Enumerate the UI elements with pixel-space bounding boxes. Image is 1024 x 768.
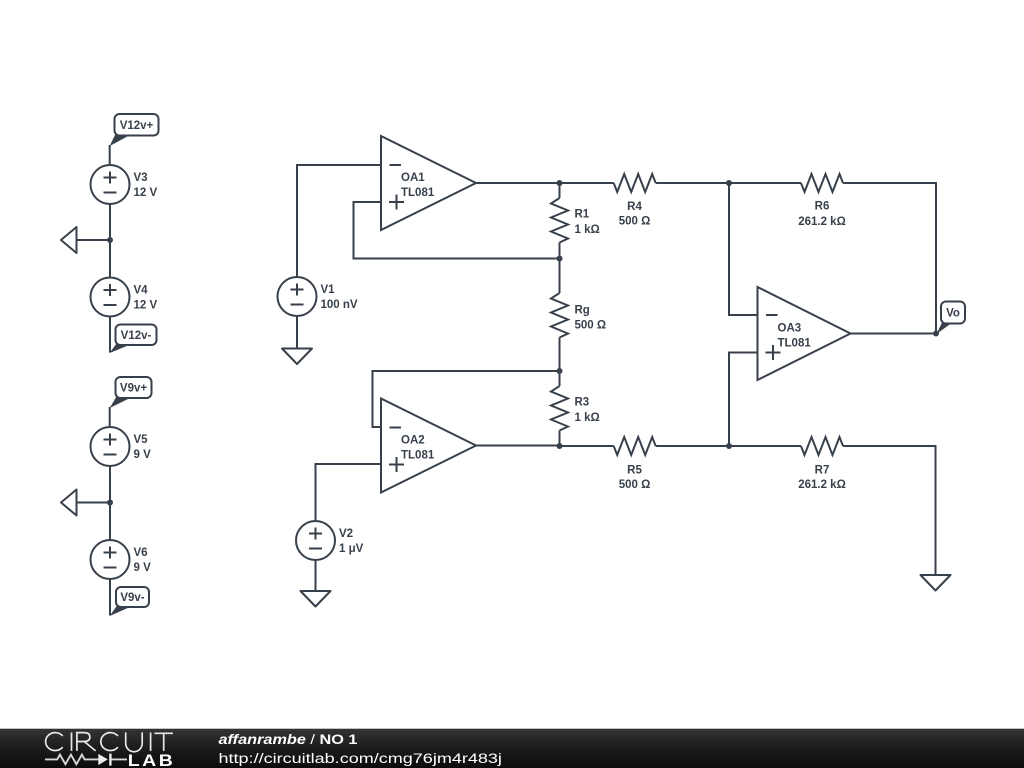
label V1 value [321,284,358,311]
wire bottom rail [560,446,936,575]
wire OA1 plus input loop [354,202,560,259]
op-amp OA1 (TL081) [381,136,476,230]
junction R5/R7 (OA3 plus tap) [726,443,732,449]
svg-text:R3: R3 [575,397,590,409]
wire OA3 plus input [729,353,758,447]
junction V5/V6 midpoint [107,500,113,506]
common net flag (left arrow) [61,227,77,253]
ground (output, bottom right) [921,575,951,591]
svg-text:9 V: 9 V [134,562,152,574]
svg-text:1 μV: 1 μV [339,543,364,555]
junction R3 bottom [557,443,563,449]
svg-text:12 V: 12 V [134,299,158,311]
wire V1 to ground [296,316,298,349]
net flag V12v- [110,325,157,354]
resistor R3 [551,386,568,431]
junction V3/V4 midpoint [107,237,113,243]
label R1 value [575,209,600,237]
svg-text:http://circuitlab.com/cmg76jm4: http://circuitlab.com/cmg76jm4r483j [219,751,502,767]
wire OA2 output to node [476,445,560,447]
wire top rail [560,183,937,334]
footer bar [0,729,1024,768]
resistor R5 [614,437,656,455]
svg-text:V1: V1 [321,284,336,296]
wire V1 to OA1 minus input [297,165,381,277]
wire flag to V5 [109,407,111,427]
svg-text:TL081: TL081 [778,338,812,350]
svg-text:V2: V2 [339,528,353,540]
logo resistor+diode glyph [45,755,127,765]
op-amp OA2 (TL081) [381,399,476,493]
wire OA2 plus input [316,464,382,522]
svg-text:500 Ω: 500 Ω [575,320,607,332]
junction R1/Rg [557,256,563,262]
svg-text:LAB: LAB [128,751,175,768]
resistor R6 [801,174,843,192]
label Rg value [575,305,607,332]
wire flag to V3 [109,145,111,165]
voltage source V5 [91,427,130,466]
label R7 value [798,465,846,492]
wire V3 to V4 [109,204,111,278]
svg-text:V3: V3 [134,172,148,184]
resistor R7 [801,437,843,455]
net flag V9v- [110,587,149,616]
junction R4/R6 (OA3 minus tap) [726,180,732,186]
svg-text:affanrambe / NO 1: affanrambe / NO 1 [219,732,358,748]
svg-text:OA1: OA1 [401,172,425,184]
wire middle rail [559,183,561,446]
label V5 value [134,434,152,461]
label R6 value [798,201,846,229]
wire V5 to V6 [109,466,111,540]
wire OA3 output to Vo node [851,333,937,335]
wire junction to common flag 2 [77,502,111,504]
svg-text:V4: V4 [134,284,149,296]
svg-text:R6: R6 [815,201,830,213]
junction Vo node [933,331,939,337]
ground (V1) [282,349,312,365]
svg-text:500 Ω: 500 Ω [619,216,651,228]
wire OA3 minus input [729,183,758,315]
svg-text:R7: R7 [815,465,830,477]
svg-text:Vo: Vo [946,308,960,320]
svg-text:V5: V5 [134,434,149,446]
voltage source V6 [91,540,130,579]
svg-text:261.2 kΩ: 261.2 kΩ [798,479,846,491]
svg-text:V6: V6 [134,547,148,559]
CircuitLab logo wordmark CIRCUIT [46,732,173,751]
label V4 value [134,284,158,311]
svg-text:Rg: Rg [575,305,590,317]
svg-text:TL081: TL081 [401,450,435,462]
wire V6 to V9v- [109,579,111,616]
label R4 value [619,201,651,228]
net flag Vo [937,302,966,335]
label V6 value [134,547,152,574]
resistor R1 [551,198,568,243]
svg-text:R5: R5 [627,465,642,477]
label V3 value [134,172,158,199]
wire V2 to ground [315,560,317,591]
svg-text:12 V: 12 V [134,187,158,199]
label R3 value [575,397,600,425]
svg-text:1 kΩ: 1 kΩ [575,224,600,236]
svg-text:R4: R4 [627,201,642,213]
resistor R4 [614,174,656,192]
voltage source V1 [278,277,317,316]
net flag V9v+ [110,377,152,408]
svg-text:1 kΩ: 1 kΩ [575,412,600,424]
wire OA2 minus input loop [373,371,560,427]
svg-text:TL081: TL081 [401,187,435,199]
common net flag 2 (left arrow) [61,490,77,516]
svg-text:V12v-: V12v- [121,330,152,342]
svg-text:V12v+: V12v+ [120,120,154,132]
svg-text:R1: R1 [575,209,590,221]
resistor Rg [551,293,568,338]
svg-text:OA3: OA3 [778,323,802,335]
ground (V2) [301,591,331,607]
label V2 value [339,528,364,555]
junction R1 top [557,180,563,186]
svg-text:100 nV: 100 nV [321,299,358,311]
net flag V12v+ [110,114,159,146]
label R5 value [619,465,651,492]
wire junction to common flag [77,239,111,241]
wire OA1 output to node [476,182,560,184]
wire V4 to V12v- [109,317,111,353]
svg-text:OA2: OA2 [401,435,425,447]
svg-text:500 Ω: 500 Ω [619,479,651,491]
svg-text:261.2 kΩ: 261.2 kΩ [798,216,846,228]
svg-text:9 V: 9 V [134,449,152,461]
voltage source V2 [296,521,335,560]
svg-text:V9v-: V9v- [120,592,144,604]
svg-text:V9v+: V9v+ [120,383,147,395]
voltage source V3 [91,165,130,204]
junction Rg/R3 [557,368,563,374]
voltage source V4 [91,278,130,317]
op-amp OA3 (TL081) [758,287,851,380]
